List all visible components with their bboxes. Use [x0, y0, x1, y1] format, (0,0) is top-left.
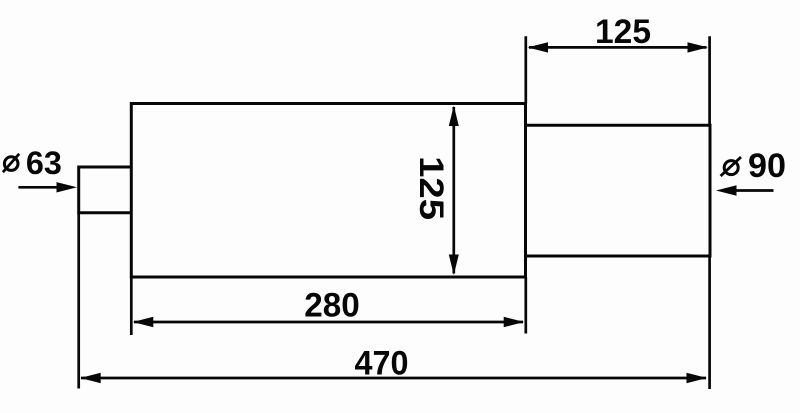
dimension 280 (body length) line	[134, 321, 523, 324]
extension line x=709.6 (outlet right edge extended down for 470 dim)	[708, 256, 711, 389]
dimension 470 (overall length) line	[81, 377, 706, 380]
svg-text:280: 280	[304, 287, 360, 325]
arrowhead bottom of vertical 125 dim	[449, 255, 459, 276]
extension line x=131.3 (body left edge extended down for 280 dim)	[130, 277, 133, 335]
dimension 125 (vertical, body diameter) line	[452, 107, 455, 274]
extension line x=78.7 (inlet pipe left edge extended down for 470 dim)	[77, 213, 80, 389]
arrowhead left of 280 dim	[133, 317, 154, 327]
arrowhead top of vertical 125 dim	[449, 106, 459, 127]
arrowhead right of 280 dim	[504, 317, 525, 327]
svg-text:63: 63	[26, 145, 62, 181]
muffler body outline	[131, 104, 525, 278]
arrowhead left of top 125 dim	[528, 42, 549, 52]
extension line x=526 (body right edge extended down for 280 dim)	[524, 277, 527, 334]
svg-text:125: 125	[595, 13, 651, 51]
outlet pipe outline	[526, 125, 711, 256]
inlet pipe outline	[79, 167, 132, 213]
arrowhead left of 470 dim	[80, 373, 101, 383]
diameter symbol of outlet label ø90	[724, 161, 738, 175]
svg-text:90: 90	[748, 147, 786, 185]
diameter symbol of inlet label ø63	[4, 157, 18, 171]
svg-text:470: 470	[355, 345, 409, 383]
svg-text:125: 125	[412, 156, 450, 220]
extension line x=709.6 (outlet right edge extended up for top 125 dim)	[708, 36, 711, 125]
arrowhead right of 470 dim	[687, 373, 708, 383]
extension line x=526 (body right edge extended up for top 125 dim)	[524, 36, 527, 103]
dimension 125 (top, outlet length) line	[529, 46, 707, 49]
inlet pointer arrow (ø63)	[18, 186, 58, 189]
arrowhead right of top 125 dim	[688, 42, 709, 52]
outlet pointer arrow (ø90)	[734, 189, 774, 192]
